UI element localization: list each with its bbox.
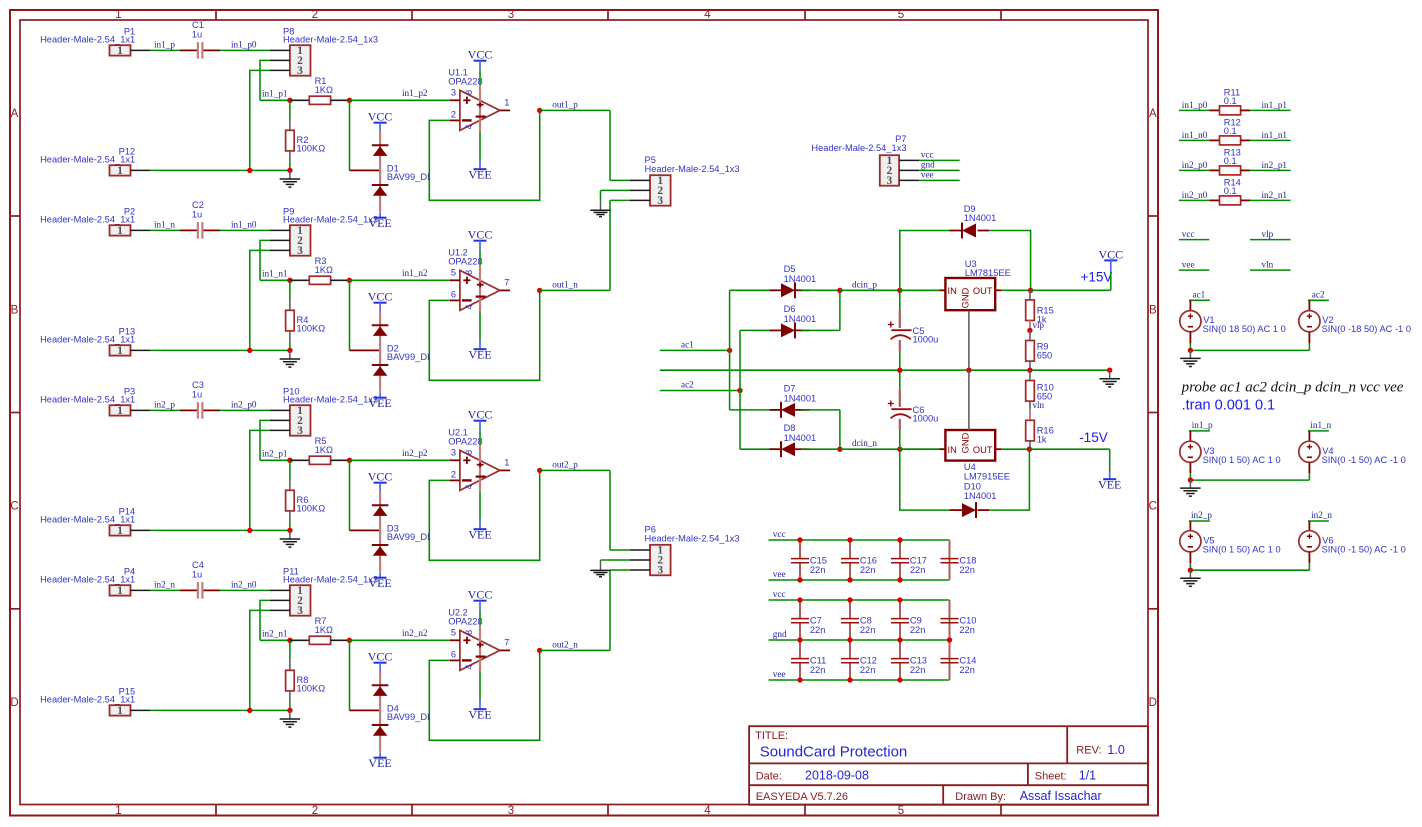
svg-text:VCC: VCC (468, 408, 493, 422)
wire in2_n stub (1308, 520, 1329, 522)
svg-text:Header-Male-2.54_1x1: Header-Male-2.54_1x1 (40, 694, 135, 704)
junction in1_n2 (347, 278, 352, 283)
svg-text:3: 3 (451, 87, 456, 97)
wire vee (C11-C14 bottom) (769, 679, 950, 681)
svg-text:LM7915EE: LM7915EE (964, 471, 1010, 481)
svg-text:22n: 22n (860, 625, 876, 635)
svg-text:22n: 22n (910, 665, 926, 675)
power VEE D1 (379, 212, 381, 218)
wire P8 pin3 to ground row (250, 70, 270, 170)
resistor R5 1K (290, 436, 350, 464)
junction (797, 677, 802, 682)
svg-text:D5: D5 (784, 264, 796, 274)
wire U1.2 feedback (429, 290, 539, 380)
svg-text:in2_n0: in2_n0 (1182, 190, 1208, 200)
junction (897, 597, 902, 602)
wire D6 to dcin_p (839, 290, 841, 330)
wire vln stub (1250, 269, 1291, 271)
wire P14 to ground (150, 529, 290, 531)
svg-text:1: 1 (117, 705, 123, 717)
svg-text:dcin_p: dcin_p (852, 279, 877, 289)
wire in2_n0 (220, 589, 270, 591)
wire vlp stub (1250, 239, 1291, 241)
svg-text:1u: 1u (192, 29, 202, 39)
ground (1180, 480, 1201, 496)
junction (897, 677, 902, 682)
voltage source V2 (1299, 300, 1411, 350)
wire out2_p to P6 pin1 (609, 471, 611, 551)
svg-text:100KΩ: 100KΩ (297, 503, 326, 513)
wire U2.2 feedback (429, 650, 539, 740)
svg-text:SoundCard Protection: SoundCard Protection (760, 744, 908, 761)
header P13 (40, 326, 150, 357)
wire out1_p to P5 pin1 (609, 110, 611, 180)
svg-text:Header-Male-2.54_1x3: Header-Male-2.54_1x3 (283, 34, 378, 44)
wire out2_n (540, 649, 610, 651)
svg-text:in1_n: in1_n (154, 219, 175, 229)
wire to VCC (1110, 272, 1112, 290)
junction U3 gnd (966, 368, 971, 373)
svg-text:vcc: vcc (1182, 229, 1195, 239)
wire in1_n1 (260, 279, 290, 281)
junction in1_p1 (287, 98, 292, 103)
svg-text:vee: vee (921, 169, 934, 179)
wire gnd (middle) (769, 639, 950, 641)
svg-text:0.1: 0.1 (1224, 156, 1237, 166)
power VEE D3 (379, 572, 381, 578)
wire D4 anode (349, 640, 351, 710)
svg-text:4: 4 (464, 124, 474, 129)
wire U4 out (1001, 448, 1029, 450)
svg-text:Date:: Date: (756, 770, 782, 782)
svg-text:SIN(0 -1 50) AC -1 0: SIN(0 -1 50) AC -1 0 (1322, 455, 1406, 465)
svg-text:out1_n: out1_n (552, 279, 578, 289)
svg-text:BAV99_DI: BAV99_DI (387, 712, 430, 722)
junction -15V (1027, 447, 1032, 452)
diode D3 BAV99_DI (372, 491, 430, 572)
junction dcin_p (837, 288, 842, 293)
svg-text:1000u: 1000u (913, 335, 939, 345)
svg-text:in2_n: in2_n (1311, 510, 1332, 520)
svg-text:1: 1 (115, 805, 121, 817)
wire V3 V4 common (1190, 479, 1309, 481)
svg-text:in1_n1: in1_n1 (262, 269, 288, 279)
capacitor C17 22n (891, 540, 927, 580)
junction out1_n (537, 288, 542, 293)
op-amp U2.2 OPA228 (448, 608, 510, 700)
svg-text:in1_p0: in1_p0 (1182, 100, 1208, 110)
wire in2_p0 (220, 409, 270, 411)
svg-text:22n: 22n (959, 665, 975, 675)
header P3 (40, 386, 150, 417)
svg-text:3: 3 (657, 195, 663, 207)
capacitor C1 1u (180, 20, 220, 59)
svg-text:.tran 0.001 0.1: .tran 0.001 0.1 (1182, 397, 1276, 413)
junction dcin_n (837, 447, 842, 452)
junction (287, 168, 292, 173)
svg-text:3: 3 (657, 565, 663, 577)
voltage source V3 (1180, 431, 1281, 480)
wire ac1 (660, 349, 730, 351)
svg-text:Header-Male-2.54_1x3: Header-Male-2.54_1x3 (811, 143, 906, 153)
svg-text:5: 5 (451, 267, 456, 277)
svg-text:22n: 22n (910, 625, 926, 635)
svg-text:5: 5 (898, 9, 904, 21)
ground P5 (590, 200, 611, 216)
wire in2_n1 (260, 639, 290, 641)
svg-text:8: 8 (464, 270, 474, 275)
resistor R4 100K (286, 280, 326, 350)
svg-text:1N4001: 1N4001 (784, 274, 817, 284)
svg-text:1: 1 (117, 585, 123, 597)
svg-text:in1_p: in1_p (154, 39, 175, 49)
ground gnd rail (1099, 370, 1120, 387)
wire P9 pin3 to ground row (250, 250, 270, 350)
diode D8 1N4001 (740, 423, 840, 457)
svg-text:1/1: 1/1 (1079, 769, 1096, 783)
svg-text:22n: 22n (860, 665, 876, 675)
junction in1_p2 (347, 98, 352, 103)
wire vee stub (1179, 269, 1209, 271)
capacitor C7 22n (791, 600, 825, 640)
svg-text:SIN(0 -18 50) AC -1 0: SIN(0 -18 50) AC -1 0 (1322, 324, 1411, 334)
power VEE U1.1 (479, 160, 481, 169)
svg-text:1.0: 1.0 (1107, 743, 1124, 757)
wire U3 gnd (968, 311, 970, 371)
header P8 (270, 26, 378, 77)
svg-text:D8: D8 (784, 423, 796, 433)
junction in2_n2 (347, 638, 352, 643)
header P10 (270, 386, 378, 437)
voltage source V4 (1299, 431, 1406, 480)
power VEE -15V (1109, 471, 1111, 479)
wire in2_n1 (1250, 199, 1291, 201)
svg-text:1N4001: 1N4001 (784, 394, 817, 404)
junction in2_p1 (287, 458, 292, 463)
svg-text:OPA228: OPA228 (448, 256, 482, 266)
wire vcc (C7-C10 top) (769, 599, 950, 601)
header P1 (40, 26, 150, 57)
header P15 (40, 686, 150, 717)
svg-text:VCC: VCC (368, 290, 393, 304)
wire D7 to dcin_n (839, 410, 841, 449)
ground (280, 530, 301, 547)
wire in1_p1 (260, 99, 290, 101)
resistor R7 1K (290, 616, 350, 644)
wire P6 pin2 to ground (601, 559, 631, 561)
junction (287, 708, 292, 713)
svg-text:in2_n0: in2_n0 (231, 579, 257, 589)
svg-text:4: 4 (704, 9, 711, 21)
resistor R3 1K (290, 256, 350, 284)
svg-text:1u: 1u (192, 209, 202, 219)
wire P10 pin3 to ground row (250, 430, 270, 530)
header P12 (40, 146, 150, 177)
svg-text:in2_p1: in2_p1 (1262, 160, 1288, 170)
svg-text:in2_n2: in2_n2 (402, 628, 428, 638)
svg-text:22n: 22n (860, 565, 876, 575)
svg-text:1000u: 1000u (913, 414, 939, 424)
header P2 (40, 206, 150, 237)
svg-text:1: 1 (504, 458, 509, 468)
junction (1188, 348, 1193, 353)
wire in1_p0 (220, 49, 270, 51)
capacitor C13 22n (891, 640, 927, 680)
svg-text:+15V: +15V (1081, 270, 1113, 285)
wire in2_p0 (1179, 169, 1209, 171)
svg-text:4: 4 (464, 484, 474, 489)
wire vee (C15-C18 bottom) (769, 579, 950, 581)
wire in2_n2 (350, 639, 450, 641)
junction ac1 (727, 348, 732, 353)
svg-text:1: 1 (117, 405, 123, 417)
svg-text:VEE: VEE (468, 528, 491, 542)
svg-text:OPA228: OPA228 (448, 616, 482, 626)
ground (1180, 570, 1201, 586)
svg-text:in1_n0: in1_n0 (1182, 130, 1208, 140)
wire in1_n0 (1179, 139, 1209, 141)
svg-text:VCC: VCC (368, 470, 393, 484)
svg-text:1N4001: 1N4001 (784, 433, 817, 443)
header P9 (270, 206, 378, 257)
wire out1_n (540, 289, 610, 291)
svg-text:22n: 22n (810, 665, 826, 675)
svg-text:Header-Male-2.54_1x3: Header-Male-2.54_1x3 (283, 214, 378, 224)
junction (847, 577, 852, 582)
wire P6 pin1 (610, 549, 630, 551)
wire V5 V6 common (1190, 569, 1309, 571)
wire C10 C14 right link (949, 600, 951, 680)
svg-text:Header-Male-2.54_1x3: Header-Male-2.54_1x3 (645, 534, 740, 544)
wire gnd rail (660, 369, 1110, 371)
svg-text:Header-Male-2.54_1x3: Header-Male-2.54_1x3 (283, 574, 378, 584)
junction dcin_n C6 (897, 447, 902, 452)
junction R9 gnd (1027, 368, 1032, 373)
diode D9 1N4001 (900, 204, 1031, 290)
svg-text:BAV99_DI: BAV99_DI (387, 352, 430, 362)
svg-text:C: C (1149, 501, 1157, 513)
svg-text:in1_p1: in1_p1 (1262, 100, 1288, 110)
wire U3 in (900, 289, 940, 291)
regulator U3 LM7815EE (940, 259, 1011, 310)
svg-text:8: 8 (464, 450, 474, 455)
svg-text:1u: 1u (192, 389, 202, 399)
svg-text:vee: vee (773, 569, 786, 579)
svg-text:1u: 1u (192, 569, 202, 579)
header P4 (40, 566, 150, 597)
svg-text:GND: GND (961, 287, 971, 308)
wire P10 pin2 to in2_p1 (260, 420, 270, 460)
svg-text:vln: vln (1033, 400, 1045, 410)
svg-text:SIN(0 1 50) AC 1 0: SIN(0 1 50) AC 1 0 (1203, 455, 1281, 465)
svg-text:D: D (10, 697, 18, 709)
svg-text:100KΩ: 100KΩ (297, 143, 326, 153)
header P7 (811, 134, 919, 187)
junction ac2 (737, 388, 742, 393)
diode D5 1N4001 (730, 264, 840, 298)
svg-text:8: 8 (464, 90, 474, 95)
svg-text:SIN(0 -1 50) AC -1 0: SIN(0 -1 50) AC -1 0 (1322, 544, 1406, 554)
wire in2_p2 (350, 459, 450, 461)
power VEE U2.1 (479, 520, 481, 529)
svg-text:in1_p0: in1_p0 (231, 39, 257, 49)
junction out2_n (537, 648, 542, 653)
svg-text:in2_p1: in2_p1 (262, 449, 288, 459)
resistor R10 650 (1026, 370, 1054, 409)
svg-text:vlp: vlp (1033, 320, 1045, 330)
svg-text:vee: vee (1182, 259, 1195, 269)
wire dcin_p (840, 289, 945, 291)
resistor R16 1k (1026, 409, 1054, 449)
svg-text:1k: 1k (1037, 435, 1047, 445)
svg-text:TITLE:: TITLE: (755, 730, 788, 742)
svg-text:ac2: ac2 (681, 380, 694, 390)
svg-text:GND: GND (961, 432, 971, 453)
svg-text:3: 3 (297, 65, 303, 77)
svg-text:Header-Male-2.54_1x3: Header-Male-2.54_1x3 (645, 164, 740, 174)
wire P9 pin2 to in1_n1 (260, 240, 270, 280)
wire U1.1 feedback (429, 110, 539, 200)
voltage source V5 (1180, 521, 1281, 570)
svg-text:VEE: VEE (468, 348, 491, 362)
svg-text:22n: 22n (959, 565, 975, 575)
svg-text:1N4001: 1N4001 (964, 213, 997, 223)
ground (280, 170, 301, 187)
svg-text:22n: 22n (810, 625, 826, 635)
svg-text:22n: 22n (910, 565, 926, 575)
wire P11 pin2 to in2_n1 (260, 600, 270, 640)
svg-text:IN: IN (948, 286, 957, 296)
svg-text:gnd: gnd (773, 629, 787, 639)
svg-text:gnd: gnd (921, 159, 935, 169)
svg-text:VCC: VCC (468, 588, 493, 602)
svg-text:in2_n1: in2_n1 (262, 629, 288, 639)
svg-text:in2_p0: in2_p0 (231, 399, 257, 409)
junction dcin_p C5 (897, 288, 902, 293)
svg-text:4: 4 (704, 805, 711, 817)
junction (797, 577, 802, 582)
header P6 (630, 525, 740, 577)
wire U4 in (900, 448, 940, 450)
junction (897, 637, 902, 642)
wire P6 pin3 (610, 569, 630, 571)
svg-text:1: 1 (115, 9, 121, 21)
power VEE D2 (379, 392, 381, 398)
svg-text:OUT: OUT (973, 445, 993, 455)
wire P5 pin1 (610, 179, 630, 181)
junction (847, 537, 852, 542)
svg-text:3: 3 (451, 447, 456, 457)
wire in2_p1 (260, 459, 290, 461)
capacitor C3 1u (180, 380, 220, 419)
op-amp U2.1 OPA228 (448, 428, 510, 520)
capacitor C11 22n (791, 640, 826, 680)
svg-text:8: 8 (464, 630, 474, 635)
junction (847, 637, 852, 642)
diode D7 1N4001 (730, 384, 840, 418)
svg-text:1N4001: 1N4001 (964, 491, 997, 501)
junction +15V (1028, 288, 1033, 293)
svg-text:3: 3 (297, 605, 303, 617)
svg-text:0.1: 0.1 (1224, 186, 1237, 196)
svg-text:1KΩ: 1KΩ (315, 625, 333, 635)
ground (1180, 350, 1201, 366)
svg-text:out2_p: out2_p (552, 459, 578, 469)
svg-text:in1_n2: in1_n2 (402, 268, 428, 278)
svg-text:A: A (1149, 108, 1157, 120)
svg-text:in1_n1: in1_n1 (1262, 130, 1288, 140)
svg-text:0.1: 0.1 (1224, 96, 1237, 106)
junction in2_p2 (347, 458, 352, 463)
svg-text:Header-Male-2.54_1x3: Header-Male-2.54_1x3 (283, 394, 378, 404)
svg-text:Header-Male-2.54_1x1: Header-Male-2.54_1x1 (40, 154, 135, 164)
wire in2_p1 (1250, 169, 1291, 171)
svg-text:1: 1 (117, 525, 123, 537)
wire P7 vee (919, 179, 960, 181)
svg-text:in2_p: in2_p (154, 399, 175, 409)
svg-text:vcc: vcc (921, 149, 934, 159)
svg-text:5: 5 (451, 627, 456, 637)
junction (847, 597, 852, 602)
wire +15V (1031, 289, 1111, 291)
capacitor C16 22n (841, 540, 877, 580)
svg-text:Drawn By:: Drawn By: (955, 791, 1006, 803)
svg-text:22n: 22n (810, 565, 826, 575)
svg-text:1: 1 (117, 345, 123, 357)
svg-text:in1_p: in1_p (1192, 420, 1213, 430)
svg-text:3: 3 (508, 9, 514, 21)
wire in2_p stub (1189, 520, 1210, 522)
svg-text:B: B (1149, 304, 1157, 316)
power VEE U2.2 (479, 700, 481, 709)
wire P8 pin2 to in1_p1 (260, 60, 270, 100)
svg-text:Header-Male-2.54_1x1: Header-Male-2.54_1x1 (40, 574, 135, 584)
svg-text:SIN(0 1 50) AC 1 0: SIN(0 1 50) AC 1 0 (1203, 544, 1281, 554)
wire C18 right link (949, 540, 951, 580)
wire D3 anode (349, 460, 351, 530)
svg-text:3: 3 (297, 425, 303, 437)
svg-text:7: 7 (504, 278, 509, 288)
wire out1_p (540, 109, 610, 111)
resistor R12 0.1 (1209, 117, 1250, 144)
svg-text:1KΩ: 1KΩ (315, 265, 333, 275)
junction (247, 708, 252, 713)
svg-text:REV:: REV: (1076, 745, 1101, 757)
wire in1_n (150, 229, 180, 231)
svg-text:VCC: VCC (468, 48, 493, 62)
capacitor C6 1000u (888, 370, 939, 449)
wire D1 anode (349, 100, 351, 170)
svg-text:1N4001: 1N4001 (784, 314, 817, 324)
wire U2.1 feedback (429, 470, 539, 560)
svg-text:U4: U4 (964, 462, 976, 472)
junction (947, 637, 952, 642)
wire in1_n stub (1308, 430, 1329, 432)
svg-text:OPA228: OPA228 (448, 76, 482, 86)
capacitor C10 22n (941, 600, 977, 640)
capacitor C14 22n (941, 640, 977, 680)
svg-text:3: 3 (508, 805, 514, 817)
junction (797, 537, 802, 542)
svg-text:Header-Male-2.54_1x1: Header-Male-2.54_1x1 (40, 514, 135, 524)
svg-text:in2_p2: in2_p2 (402, 448, 428, 458)
svg-text:VCC: VCC (368, 110, 393, 124)
svg-text:vlp: vlp (1262, 229, 1274, 239)
svg-text:2: 2 (312, 9, 318, 21)
svg-text:in1_n0: in1_n0 (231, 219, 257, 229)
wire out1_n to P5 pin3 (609, 200, 611, 290)
junction out2_p (537, 468, 542, 473)
